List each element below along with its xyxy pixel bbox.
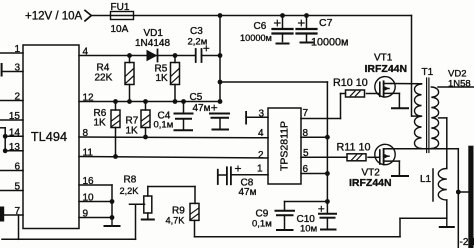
svg-text:10A: 10A [111,24,129,35]
svg-text:4,7K: 4,7K [166,216,186,226]
svg-text:VT1: VT1 [374,53,393,64]
svg-text:22K: 22K [95,73,113,84]
svg-text:TL494: TL494 [31,129,67,144]
svg-text:2,2K: 2,2K [120,186,140,196]
svg-text:2,2м: 2,2м [188,37,208,48]
svg-text:7: 7 [303,108,309,119]
svg-text:1: 1 [257,164,263,175]
svg-text:R10 10: R10 10 [333,77,368,89]
svg-text:47м: 47м [239,187,257,198]
svg-text:+12V / 10A: +12V / 10A [25,11,83,23]
svg-text:1K: 1K [94,118,107,129]
svg-text:4: 4 [258,128,264,139]
svg-text:IRFZ44N: IRFZ44N [349,177,392,189]
svg-text:0,1м: 0,1м [252,219,272,230]
svg-text:IRFZ44N: IRFZ44N [365,63,408,75]
svg-text:47м: 47м [193,103,211,114]
svg-text:1N4148: 1N4148 [135,38,170,49]
svg-text:C6: C6 [254,21,267,32]
svg-text:10000м: 10000м [240,33,272,43]
svg-text:10000м: 10000м [311,37,348,49]
svg-text:1N58: 1N58 [448,79,471,90]
svg-text:L1: L1 [420,174,432,185]
svg-text:C7: C7 [319,17,333,29]
svg-text:1K: 1K [156,73,169,84]
svg-text:2: 2 [258,150,264,161]
svg-text:1K: 1K [126,126,139,137]
svg-text:C3: C3 [190,26,203,37]
svg-text:C5: C5 [190,92,203,103]
svg-text:R11 10: R11 10 [337,142,371,154]
svg-text:R8: R8 [124,175,137,186]
svg-text:4: 4 [470,237,474,248]
svg-text:-2: -2 [460,237,469,248]
svg-text:10м: 10м [300,224,317,235]
svg-text:T1: T1 [422,67,434,78]
svg-text:0,1м: 0,1м [154,120,174,131]
svg-text:TPS2811P: TPS2811P [278,121,290,171]
